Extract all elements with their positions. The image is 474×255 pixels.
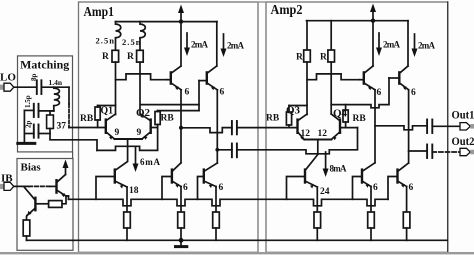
svg-text:2mA: 2mA	[383, 40, 401, 50]
svg-text:8p: 8p	[30, 74, 38, 82]
dashed wire Out2 cap to port	[432, 151, 459, 153]
transistor EF3 (Amp2 follower 6)	[360, 66, 376, 90]
wire load2 down to Q2 collector	[139, 62, 141, 114]
resistor RE5	[368, 187, 375, 241]
connector matching-bias box edges	[72, 152, 74, 159]
resistor RB3	[286, 106, 307, 128]
svg-text:Bias: Bias	[21, 162, 42, 174]
svg-text:6: 6	[185, 88, 190, 98]
transistor Q2	[141, 114, 158, 140]
transistor Q3	[298, 114, 308, 140]
svg-text:2mA: 2mA	[191, 40, 209, 50]
node dot EF2/cap2	[215, 148, 219, 152]
coupling capacitor C2 (lower)	[232, 144, 237, 158]
figure bottom border	[0, 252, 474, 254]
node wire load2'/Q4/RB4/EF2'base (with hop)	[331, 78, 389, 108]
wire Out1 cap to port	[432, 125, 459, 127]
svg-text:Out1: Out1	[452, 107, 474, 121]
svg-text:9: 9	[115, 128, 120, 138]
wire EF1 collector to rail	[180, 22, 182, 66]
svg-text:Q1: Q1	[101, 105, 114, 117]
supply arrow Amp1	[178, 5, 184, 24]
Matching box	[18, 56, 73, 152]
resistor R (load1 Amp2)	[304, 21, 311, 62]
transistor QB1 (bias follower)	[57, 175, 67, 198]
svg-text:RB: RB	[161, 114, 175, 124]
wire Out2 from EF4 emitter	[409, 150, 427, 152]
wire EF3 emitter down to Out1 corner	[374, 90, 376, 163]
wire Q1 base	[69, 127, 106, 129]
svg-text:R: R	[320, 53, 327, 63]
svg-text:2.5n: 2.5n	[122, 37, 141, 47]
wire bias bottom to main bottom rail	[27, 239, 74, 241]
transistor EF2 (emitter follower 6)	[199, 66, 217, 90]
resistor RB4	[343, 105, 348, 128]
svg-text:6: 6	[183, 183, 188, 193]
mirror transistor M1 (18)	[96, 170, 127, 200]
resistor RE6	[403, 187, 410, 241]
resistor 37	[47, 115, 54, 129]
svg-text:RB: RB	[80, 114, 94, 124]
svg-text:1.5p: 1.5p	[24, 95, 32, 108]
capacitor Out2	[427, 145, 432, 159]
svg-text:2.5n: 2.5n	[96, 36, 115, 46]
wire down to Q1 base level	[68, 87, 70, 104]
Amp2 box	[266, 2, 448, 252]
wire RB2 top branch	[158, 110, 199, 112]
wire load2' down to node wire	[330, 62, 332, 114]
top edge connector between amp boxes	[258, 1, 266, 3]
svg-text:2mA: 2mA	[227, 41, 245, 51]
Bias box	[17, 159, 73, 251]
Amp1 box	[79, 2, 259, 252]
wire EF1 node to C1 (hop down)	[181, 128, 232, 133]
emitter join bar Q3/Q4	[304, 139, 331, 141]
wire load1 down to Q1 collector	[115, 62, 117, 114]
svg-text:RB: RB	[353, 114, 367, 124]
wire coil to 1.5p node	[53, 106, 55, 111]
tail wire to mirror 24	[305, 140, 318, 171]
resistor RE4	[314, 187, 321, 240]
Amp1 top rail	[116, 21, 218, 23]
resistor R (load1 Amp1)	[112, 38, 119, 62]
svg-text:6: 6	[411, 88, 416, 98]
wire EF2 emitter down chain	[216, 90, 218, 163]
wire bias emitter to rail	[66, 196, 69, 199]
current arrow 2mA (EF4)	[412, 34, 418, 57]
shunt rail down	[23, 110, 25, 142]
wire Out1 from EF3 emitter (hop over EF4 line)	[375, 126, 427, 130]
svg-text:R: R	[127, 52, 134, 62]
svg-text:LO: LO	[0, 72, 16, 84]
resistor RE2	[178, 187, 185, 241]
mirror transistor M5 (6)	[353, 163, 376, 200]
resistor RE3	[213, 187, 220, 241]
wire C1 to Q3 base	[237, 127, 298, 129]
svg-text:Amp1: Amp1	[84, 5, 115, 20]
svg-text:12: 12	[318, 129, 328, 139]
transistor Q4	[331, 114, 357, 140]
resistor RBh (bias horizontal)	[35, 196, 68, 208]
mirror transistor M3 (6)	[198, 163, 218, 199]
svg-text:2p: 2p	[25, 121, 33, 129]
svg-text:R: R	[296, 53, 303, 63]
current arrow 6mA	[133, 147, 139, 172]
current arrow 2mA (EF3)	[376, 33, 382, 56]
wire EF1' base from load1' (with hop)	[307, 74, 360, 80]
long wire matching to Q2 base (jog under tail)	[97, 128, 158, 151]
svg-text:RB: RB	[266, 114, 280, 124]
node dot EF1/cap1	[179, 126, 183, 130]
inductor L2 2.5n	[140, 22, 145, 39]
wire 1.5p right to chain	[39, 110, 54, 112]
capacitor 1.5p (shunt)	[34, 104, 39, 117]
svg-text:1.4n: 1.4n	[49, 78, 63, 87]
svg-text:Matching: Matching	[20, 60, 69, 72]
svg-text:Out2: Out2	[452, 134, 474, 148]
ground node dot	[179, 238, 184, 243]
mirror transistor M6 (6)	[388, 163, 409, 199]
transistor Q1	[106, 114, 116, 140]
supply arrow (bias)	[63, 160, 69, 175]
wire IB to bias transistor	[14, 185, 29, 187]
svg-text:12: 12	[301, 129, 311, 139]
wire EF2 node to C2	[217, 149, 232, 151]
svg-text:24: 24	[320, 187, 330, 197]
LO port	[0, 83, 14, 91]
resistor R (load2 Amp1)	[137, 38, 144, 62]
transistor QB2 (diode)	[25, 188, 36, 216]
IB port	[0, 182, 14, 190]
resistor RE1	[124, 187, 131, 240]
bias rail with hops	[69, 199, 389, 206]
svg-text:9: 9	[137, 128, 142, 138]
svg-text:IB: IB	[1, 173, 13, 185]
current arrow 2mA (EF2)	[221, 34, 227, 57]
wire LO to matching cap	[14, 86, 37, 88]
svg-text:37: 37	[57, 122, 67, 132]
wire load1' down to Q3 collector	[306, 62, 308, 115]
inductor 1.4n	[54, 87, 60, 106]
current arrow 2mA (EF1)	[184, 33, 190, 56]
svg-text:8mA: 8mA	[330, 164, 348, 174]
wire EF3 collector to rail	[372, 21, 374, 66]
svg-text:Q3: Q3	[286, 105, 301, 117]
svg-text:6: 6	[377, 88, 382, 98]
resistor RB2	[155, 111, 160, 128]
coupling capacitor C1 (upper)	[232, 121, 237, 134]
svg-text:6: 6	[373, 183, 378, 193]
wire 2p left to shunt rail	[24, 133, 33, 135]
wire EF2 collector to rail end	[216, 22, 218, 66]
svg-text:R: R	[102, 52, 109, 62]
capacitor Out1	[427, 120, 432, 134]
Out1 port	[460, 123, 474, 130]
capacitor 2p (shunt)	[34, 125, 39, 138]
wire EF4 emitter down to Out2 corner	[408, 90, 410, 163]
ground symbol	[176, 240, 187, 246]
supply arrow Amp2	[370, 4, 376, 23]
mirror transistor M4 (24)	[287, 170, 318, 200]
Out2 port	[460, 148, 474, 155]
wire EF1 emitter down chain	[180, 90, 182, 163]
tail wire to mirror 18	[115, 139, 128, 171]
wire cap to corner	[41, 86, 69, 88]
mirror transistor M2 (6)	[162, 163, 181, 200]
wire resistor37 down/right (matching output)	[50, 129, 97, 151]
svg-text:6: 6	[220, 88, 225, 98]
resistor R (load2 Amp2)	[328, 21, 335, 62]
wire 2p right to chain	[39, 133, 51, 135]
wire EF1 base from load1 (with hop)	[116, 74, 167, 80]
main bottom rail	[73, 239, 447, 241]
svg-text:2mA: 2mA	[418, 41, 436, 51]
emitter join bar Q1/Q2	[115, 138, 142, 140]
svg-text:6mA: 6mA	[140, 157, 161, 167]
Amp2 top rail	[307, 20, 409, 22]
svg-text:Q4: Q4	[333, 108, 348, 120]
svg-text:18: 18	[129, 186, 139, 196]
svg-text:6: 6	[219, 183, 224, 193]
svg-text:Q2: Q2	[136, 107, 151, 119]
capacitor 8p (series input)	[37, 80, 42, 94]
resistor RB1	[95, 106, 116, 128]
transistor EF1 (emitter follower 6)	[167, 66, 182, 90]
wire 1.5p left to shunt rail	[24, 109, 33, 111]
ground (matching)	[18, 142, 35, 145]
resistor RBv (bias vertical)	[23, 216, 30, 241]
riser to EF2 base	[198, 81, 200, 111]
svg-text:Amp2: Amp2	[271, 3, 303, 18]
transistor EF4 (Amp2 follower 6)	[389, 66, 409, 90]
wire Q2 collector branch to EF2 base riser	[141, 104, 199, 106]
svg-text:6: 6	[409, 183, 414, 193]
wire EF4 collector to rail end	[407, 21, 409, 66]
wire C2 to Q4 base riser (jog at tail)	[237, 128, 358, 154]
current arrow 8mA	[323, 152, 329, 177]
inductor L1 2.5n	[116, 22, 121, 39]
